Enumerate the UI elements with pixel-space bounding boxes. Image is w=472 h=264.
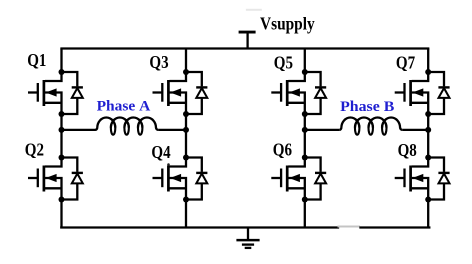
junction dots Q5 drain and source nodes — [302, 69, 308, 117]
diode top wire Q7 — [428, 72, 444, 86]
diode triangle Q6 — [315, 174, 326, 184]
inductor Phase A loop turns — [111, 122, 142, 135]
diode bottom wire Q1 — [62, 97, 78, 114]
faded watermark segment of bottom rail — [338, 226, 361, 228]
diode cathode bar Q8 — [438, 172, 449, 174]
gate plate Q6 — [280, 169, 282, 188]
junction dots Q8 drain and source nodes — [425, 155, 431, 203]
diode bottom wire Q2 — [62, 183, 78, 200]
inductor Phase A winding — [95, 117, 158, 129]
channel plate Q1 — [43, 80, 46, 106]
gate plate Q2 — [37, 169, 39, 188]
drain stub Q1 — [45, 72, 62, 81]
body arrow Q4 — [170, 174, 181, 182]
diode cathode bar Q1 — [72, 86, 83, 88]
body/source line Q4 — [170, 178, 187, 200]
bottom rail wire (ground bus) left part — [61, 226, 338, 228]
channel plate Q3 — [167, 80, 170, 106]
drain stub Q8 — [412, 158, 429, 167]
node dot phase A left — [59, 127, 65, 133]
diode triangle Q1 — [72, 88, 83, 98]
channel plate Q4 — [167, 166, 170, 192]
junction dots Q2 drain and source nodes — [59, 155, 65, 203]
leg 4 vertical wire segments — [427, 49, 429, 228]
diode cathode bar Q7 — [438, 86, 449, 88]
transistor Q4 (N-MOSFET, phase A low side) — [153, 158, 187, 200]
source stub Q6 — [288, 187, 305, 189]
body/source line Q1 — [45, 93, 62, 115]
gate lead Q2 — [28, 177, 38, 179]
diode cathode bar Q5 — [315, 86, 326, 88]
gate lead Q5 — [271, 91, 281, 93]
junction dots Q1 drain and source nodes — [59, 69, 65, 117]
body arrow Q2 — [46, 174, 57, 182]
gate plate Q8 — [403, 169, 405, 188]
body diode of Q1 — [62, 72, 83, 114]
gate lead Q8 — [395, 177, 405, 179]
junction dots Q3 drain and source nodes — [183, 69, 189, 117]
body diode of Q6 — [305, 158, 326, 200]
gate plate Q4 — [161, 169, 163, 188]
inductor Phase B winding — [339, 117, 402, 129]
body arrow Q5 — [289, 88, 300, 96]
body diode of Q2 — [62, 158, 83, 200]
body diode of Q8 — [428, 158, 449, 200]
wire phase A inductor to right node — [158, 129, 186, 131]
wire phase B left node to inductor — [305, 129, 339, 131]
gate plate Q1 — [37, 83, 39, 102]
body diode of Q4 — [186, 158, 207, 200]
channel plate Q2 — [43, 166, 46, 192]
leg 1 vertical wire segments — [60, 49, 62, 228]
diode top wire Q8 — [428, 158, 444, 172]
channel plate Q5 — [286, 80, 289, 106]
svg-text:Q7: Q7 — [396, 52, 415, 72]
diode top wire Q6 — [305, 158, 321, 172]
inductor Phase B loop turns — [355, 122, 386, 135]
gate plate Q5 — [280, 83, 282, 102]
diode cathode bar Q2 — [72, 172, 83, 174]
svg-text:Q8: Q8 — [398, 140, 417, 160]
node dot phase B right — [425, 127, 431, 133]
diode triangle Q2 — [72, 174, 83, 184]
body diode of Q5 — [305, 72, 326, 114]
gate lead Q3 — [153, 91, 163, 93]
body/source line Q2 — [45, 178, 62, 200]
transistor Q7 (N-MOSFET, phase B high side) — [395, 72, 429, 114]
diode triangle Q8 — [439, 174, 450, 184]
diode cathode bar Q3 — [196, 86, 207, 88]
drain stub Q3 — [170, 72, 187, 81]
drain stub Q5 — [288, 72, 305, 81]
Vsupply terminal symbol — [239, 32, 256, 48]
diode bottom wire Q8 — [428, 183, 444, 200]
diode top wire Q2 — [62, 158, 78, 172]
transistor Q2 (N-MOSFET, phase A low side) — [28, 158, 62, 200]
gate lead Q7 — [395, 91, 405, 93]
junction dots Q4 drain and source nodes — [183, 155, 189, 203]
transistor Q8 (N-MOSFET, phase B low side) — [395, 158, 429, 200]
diode cathode bar Q6 — [315, 172, 326, 174]
source stub Q1 — [45, 102, 62, 104]
wire phase B inductor to right node — [402, 129, 428, 131]
diode top wire Q3 — [186, 72, 202, 86]
diode cathode bar Q4 — [196, 172, 207, 174]
svg-text:Q5: Q5 — [274, 53, 293, 73]
node dot phase A right — [183, 127, 189, 133]
gate plate Q3 — [161, 83, 163, 102]
drain stub Q2 — [45, 158, 62, 167]
svg-text:Q4: Q4 — [151, 142, 170, 162]
diode top wire Q1 — [62, 72, 78, 86]
channel plate Q7 — [409, 80, 412, 106]
drain stub Q4 — [170, 158, 187, 167]
transistor Q3 (N-MOSFET, phase A high side) — [153, 72, 187, 114]
drain stub Q7 — [412, 72, 429, 81]
source stub Q3 — [170, 102, 187, 104]
body arrow Q3 — [170, 88, 181, 96]
body/source line Q7 — [412, 93, 429, 115]
body/source line Q3 — [170, 93, 187, 115]
watermark artifact dash above Vsupply — [246, 9, 262, 11]
source stub Q4 — [170, 187, 187, 189]
diode triangle Q3 — [196, 88, 207, 98]
diode bottom wire Q4 — [186, 183, 202, 200]
leg 3 vertical wire segments — [304, 49, 306, 228]
drain stub Q6 — [288, 158, 305, 167]
ground symbol — [236, 228, 259, 248]
svg-text:Q1: Q1 — [27, 50, 46, 70]
channel plate Q6 — [286, 166, 289, 192]
body/source line Q6 — [288, 178, 305, 200]
diode bottom wire Q6 — [305, 183, 321, 200]
body/source line Q8 — [412, 178, 429, 200]
diode top wire Q5 — [305, 72, 321, 86]
body arrow Q7 — [412, 88, 423, 96]
source stub Q5 — [288, 102, 305, 104]
diode bottom wire Q5 — [305, 97, 321, 114]
top rail wire (Vsupply bus) — [62, 47, 429, 49]
body diode of Q7 — [428, 72, 449, 114]
svg-text:Vsupply: Vsupply — [260, 14, 315, 34]
gate lead Q1 — [28, 91, 38, 93]
body diode of Q3 — [186, 72, 207, 114]
svg-text:Q6: Q6 — [273, 140, 292, 160]
diode triangle Q4 — [196, 174, 207, 184]
body arrow Q1 — [46, 88, 57, 96]
svg-text:Phase A: Phase A — [97, 98, 151, 115]
diode bottom wire Q7 — [428, 97, 444, 114]
source stub Q8 — [412, 187, 429, 189]
leg 2 vertical wire segments — [185, 49, 187, 228]
node dot phase B left — [302, 127, 308, 133]
svg-text:Q3: Q3 — [149, 52, 168, 72]
source stub Q7 — [412, 102, 429, 104]
gate plate Q7 — [403, 83, 405, 102]
svg-text:Phase B: Phase B — [340, 98, 394, 115]
body arrow Q6 — [289, 174, 300, 182]
gate lead Q4 — [153, 177, 163, 179]
diode top wire Q4 — [186, 158, 202, 172]
stray mark near Q4 — [167, 163, 170, 166]
junction dots Q7 drain and source nodes — [425, 69, 431, 117]
body/source line Q5 — [288, 93, 305, 115]
diode triangle Q5 — [315, 88, 326, 98]
gate lead Q6 — [271, 177, 281, 179]
junction dots Q6 drain and source nodes — [302, 155, 308, 203]
wire phase A left node to inductor — [62, 129, 96, 131]
source stub Q2 — [45, 187, 62, 189]
diode bottom wire Q3 — [186, 97, 202, 114]
transistor Q6 (N-MOSFET, phase B low side) — [271, 158, 305, 200]
svg-text:Q2: Q2 — [25, 140, 44, 160]
transistor Q5 (N-MOSFET, phase B high side) — [271, 72, 305, 114]
channel plate Q8 — [409, 166, 412, 192]
bottom rail wire (ground bus) right part — [361, 226, 430, 228]
body arrow Q8 — [412, 174, 423, 182]
diode triangle Q7 — [439, 88, 450, 98]
transistor Q1 (N-MOSFET, phase A high side) — [28, 72, 62, 114]
